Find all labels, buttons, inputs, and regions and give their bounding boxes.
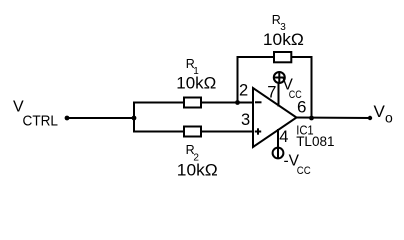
node input junction [132,116,137,121]
svg-text:3: 3 [241,111,250,129]
svg-text:CTRL: CTRL [23,114,59,130]
svg-text:CC: CC [297,165,311,177]
label R2 [186,143,200,163]
op-amp plus input mark [255,128,261,134]
label R1 value 10k [176,73,216,92]
svg-text:7: 7 [267,84,276,102]
svg-text:4: 4 [279,128,288,146]
pin 3 [241,111,250,129]
wire R2 to pin3 [202,131,253,133]
svg-text:10kΩ: 10kΩ [263,30,304,49]
resistor R3 [274,52,291,62]
svg-text:TL081: TL081 [296,134,334,149]
label Vctrl [13,99,58,130]
wire input [67,117,134,119]
pin 6 [297,98,306,117]
op-amp U1 triangle [253,88,297,147]
label TL081 [296,134,334,149]
wire output [297,117,371,120]
wire feedback top left [238,56,274,58]
svg-text:10kΩ: 10kΩ [176,73,216,92]
svg-text:V: V [374,102,386,121]
label R1 [186,57,200,77]
label R3 value 10k [263,30,304,49]
wire split vertical [133,103,135,132]
pin 4 [279,128,288,146]
svg-text:o: o [385,110,393,126]
wire pin4 lead [277,130,279,146]
label -Vcc [284,153,311,177]
svg-text:10kΩ: 10kΩ [177,161,218,180]
label +Vcc [283,77,302,101]
pin 7 [267,84,276,102]
power +Vcc symbol [274,72,285,83]
label Vo [374,102,394,126]
svg-text:2: 2 [239,82,248,100]
node Vctrl terminal [65,116,70,121]
label R2 value 10k [177,161,218,180]
resistor R1 [184,98,201,108]
resistor R2 [184,127,201,137]
wire pin7 lead [278,85,280,106]
node output junction [309,116,314,121]
power -Vcc symbol [273,148,284,159]
label R3 [272,13,287,33]
label IC1 [296,124,314,138]
wire R1 to pin2 [202,102,253,104]
svg-text:CC: CC [289,89,302,101]
wire feedback top right [293,56,312,58]
wire to R2 [134,131,183,133]
node Vo terminal [368,116,372,120]
wire to R1 [134,102,183,104]
wire feedback down [311,57,313,118]
pin 2 [239,82,248,100]
node feedback junction [235,100,240,105]
wire feedback up [237,57,239,103]
op-amp minus input mark [255,101,262,103]
